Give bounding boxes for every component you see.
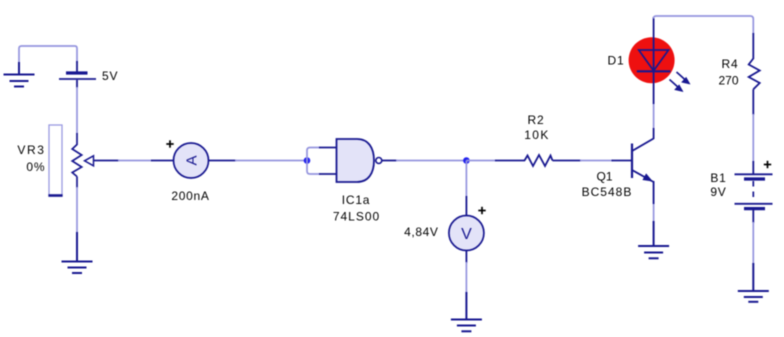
- battery B1: [735, 161, 773, 223]
- wire: node B down to voltmeter: [465, 161, 467, 198]
- ground (B1): [738, 263, 769, 302]
- NAND output pin: [382, 160, 397, 162]
- Q1 emitter pin lower: [653, 181, 655, 204]
- wire: voltmeter to ground: [465, 262, 467, 294]
- wire: ground to 5V battery top rail: [19, 46, 77, 64]
- svg-text:VR3: VR3: [17, 143, 45, 157]
- svg-text:0%: 0%: [26, 160, 45, 174]
- Q1 emitter arrow: [643, 174, 652, 181]
- LED D1 body: [629, 37, 675, 83]
- svg-text:R2: R2: [528, 113, 545, 127]
- wire: node A to NAND inputs: [307, 148, 320, 175]
- svg-text:270: 270: [718, 74, 738, 88]
- svg-text:74LS00: 74LS00: [333, 210, 380, 224]
- svg-text:D1: D1: [608, 54, 625, 68]
- ground (voltmeter): [451, 292, 482, 331]
- wire: top rail LED to R4: [654, 16, 754, 34]
- svg-text:5V: 5V: [102, 69, 118, 83]
- ammeter plus: [166, 140, 173, 147]
- LED light arrow 1: [677, 72, 690, 84]
- LED D1 symbol: [637, 17, 671, 104]
- svg-text:B1: B1: [710, 171, 726, 185]
- voltmeter body: [449, 216, 484, 251]
- wire: ammeter to NAND input node: [235, 160, 306, 162]
- voltmeter plus: [478, 207, 485, 214]
- node A junction dot: [304, 157, 311, 164]
- LED light arrow 2: [670, 80, 683, 92]
- svg-text:BC548B: BC548B: [582, 185, 633, 199]
- NAND gate IC1a input pins: [319, 148, 337, 175]
- voltmeter pins: [465, 196, 467, 263]
- wire: VR3 wiper to ammeter: [118, 160, 152, 162]
- svg-text:R4: R4: [722, 57, 739, 71]
- wire: node B to R2: [466, 160, 496, 162]
- node B junction dot: [463, 157, 470, 164]
- wire: Q1 collector up to LED: [653, 103, 655, 129]
- wire: Q1 emitter to ground: [653, 182, 655, 223]
- transistor Q1: [612, 139, 654, 183]
- NAND output bubble: [376, 158, 382, 164]
- VR3 slider knob (0%): [48, 194, 62, 197]
- svg-text:V: V: [461, 226, 472, 243]
- VR3 wiper arrow: [85, 156, 94, 166]
- svg-text:200nA: 200nA: [171, 189, 209, 203]
- VR3 slider track: [49, 125, 62, 196]
- NAND gate IC1a body: [337, 139, 375, 182]
- ground (Q1 emitter): [638, 221, 669, 258]
- svg-text:Q1: Q1: [596, 170, 612, 184]
- battery B1 plus: [764, 161, 771, 168]
- ground (VR3): [62, 232, 93, 273]
- ammeter body: [174, 143, 209, 178]
- battery 5V: [59, 61, 96, 88]
- ground (top left): [4, 62, 35, 87]
- wire: R2 to Q1 base: [580, 160, 613, 162]
- wire: B1 to ground: [752, 222, 754, 265]
- ammeter U? pins: [151, 160, 236, 162]
- potentiometer VR3: [72, 133, 82, 188]
- wire: R4 to battery B1: [752, 114, 754, 162]
- svg-text:A: A: [184, 155, 201, 165]
- resistor R4: [749, 33, 760, 115]
- svg-text:4,84V: 4,84V: [404, 225, 438, 239]
- Q1 collector pin: [653, 128, 655, 139]
- wire: VR3 bottom to ground: [76, 187, 78, 234]
- svg-text:IC1a: IC1a: [342, 193, 371, 207]
- wire: battery to VR3: [76, 87, 78, 134]
- svg-text:10K: 10K: [524, 128, 550, 142]
- resistor R2: [495, 155, 581, 166]
- svg-text:9V: 9V: [710, 185, 726, 199]
- wire: NAND output to node B: [396, 160, 466, 162]
